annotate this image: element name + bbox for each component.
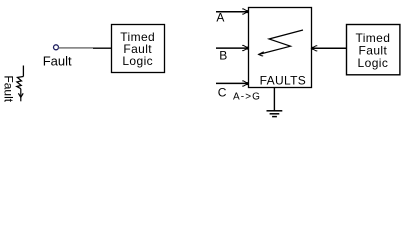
wire stub of fault symbol: [22, 66, 24, 77]
arrowhead barbs: [18, 93, 23, 97]
arrowhead C: [242, 81, 248, 86]
ground symbol: [267, 111, 283, 117]
svg-text:Fault: Fault: [43, 54, 72, 69]
arrow shaft: [20, 89, 22, 102]
arrowhead B: [242, 45, 248, 50]
phase B input wire: [216, 47, 247, 49]
svg-text:Fault: Fault: [1, 75, 15, 102]
svg-text:A->G: A->G: [233, 92, 261, 103]
svg-text:B: B: [219, 48, 227, 62]
wire from node to left Timed Fault Logic block: [59, 47, 93, 49]
svg-text:A: A: [216, 10, 224, 24]
connector wire from right block to FAULTS box: [312, 47, 347, 49]
node circle (fault node): [54, 45, 59, 50]
svg-text:Logic: Logic: [122, 54, 153, 68]
phase A input wire: [216, 11, 247, 13]
block FAULTS box: [249, 8, 312, 88]
svg-text:Logic: Logic: [358, 56, 389, 70]
block U1: Timed Fault Logic (left): [112, 25, 165, 73]
fault symbol (left lightning arrow): [17, 66, 24, 102]
lightning bolt inside FAULTS box: [259, 30, 304, 56]
ground stem wire: [273, 88, 275, 112]
arrowhead (pointing left into FAULTS): [312, 46, 318, 51]
phase C input wire: [216, 82, 247, 84]
bolt arrowhead: [259, 52, 264, 56]
svg-text:C: C: [218, 86, 227, 100]
pin stub of left block: [93, 47, 111, 49]
arrowhead A: [242, 9, 248, 14]
svg-text:FAULTS: FAULTS: [260, 73, 307, 87]
lightning zigzag: [17, 77, 24, 89]
block U2: Timed Fault Logic (right): [347, 25, 400, 75]
